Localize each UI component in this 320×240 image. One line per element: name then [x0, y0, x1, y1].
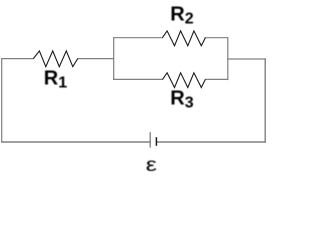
wire: R1 to parallel box left node: [78, 58, 114, 60]
wire: bottom left to battery: [2, 141, 150, 143]
wire: right edge of outer loop: [264, 59, 266, 142]
node B: parallel box right vertical: [227, 38, 229, 80]
wire: top branch left lead to R2: [114, 37, 163, 39]
node A: parallel box left vertical: [113, 38, 115, 80]
battery cell E: short negative plate: [155, 137, 157, 146]
wire: bottom branch left lead to R3: [114, 78, 163, 80]
svg-text:2: 2: [185, 11, 194, 28]
wire: bottom branch R3 to right node: [205, 78, 227, 80]
svg-text:R: R: [170, 3, 185, 25]
wire: top branch R2 to right node: [205, 37, 228, 39]
wire: battery to bottom right: [157, 141, 265, 143]
svg-text:R: R: [170, 87, 185, 109]
svg-text:ε: ε: [146, 153, 157, 175]
svg-text:1: 1: [58, 75, 67, 92]
wire: left edge of outer loop: [1, 59, 3, 142]
wire: right node to right edge: [228, 58, 265, 60]
resistor R3: [163, 73, 206, 88]
wire: top-left lead to R1: [2, 58, 34, 60]
svg-text:3: 3: [185, 95, 194, 112]
resistor R1: [33, 51, 77, 67]
svg-text:R: R: [44, 67, 59, 89]
resistor R2: [162, 31, 205, 46]
battery cell E: long positive plate: [149, 132, 151, 147]
